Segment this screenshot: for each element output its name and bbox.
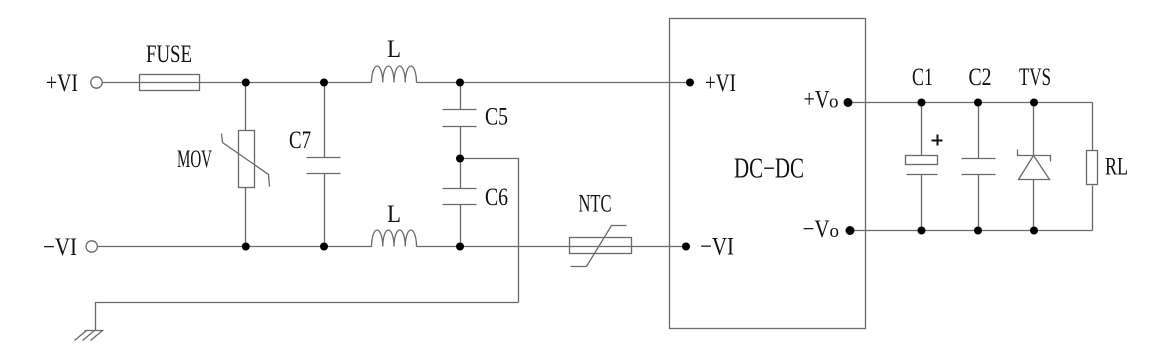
svg-text:−VI: −VI xyxy=(700,234,734,261)
ground xyxy=(85,330,104,332)
svg-text:L: L xyxy=(387,36,401,63)
svg-text:+V: +V xyxy=(804,87,830,114)
diode TVS xyxy=(1033,103,1035,156)
pin -Vo of DC-DC xyxy=(846,226,855,235)
wire NTC to -VI pin xyxy=(570,246,687,248)
junction out TVS top xyxy=(1030,99,1038,107)
wire top after inductor xyxy=(417,82,691,84)
wire +VI input to node A xyxy=(103,82,372,84)
inductor L top xyxy=(372,66,417,83)
plus mark C1 polarity xyxy=(932,135,943,146)
capacitor C2 xyxy=(978,103,980,159)
wire bottom rail left xyxy=(98,246,372,248)
svg-text:RL: RL xyxy=(1105,154,1128,181)
junction node B C5-C6 xyxy=(456,155,464,163)
svg-text:−V: −V xyxy=(803,216,830,243)
svg-text:+VI: +VI xyxy=(705,70,736,97)
varistor MOV xyxy=(239,131,255,188)
wire MOV branch xyxy=(245,83,247,131)
svg-text:TVS: TVS xyxy=(1019,64,1051,91)
svg-text:+VI: +VI xyxy=(46,70,78,97)
svg-text:DC−DC: DC−DC xyxy=(734,154,804,185)
svg-text:FUSE: FUSE xyxy=(146,41,192,68)
svg-text:MOV: MOV xyxy=(177,146,212,173)
junction out C1 bottom xyxy=(918,227,926,235)
resistor RL xyxy=(1092,103,1094,151)
inductor L bottom xyxy=(372,230,417,247)
pin +VI of DC-DC xyxy=(686,79,694,87)
wire node B to ground drop xyxy=(461,159,519,303)
wire MOV to bottom rail xyxy=(245,188,247,247)
svg-text:L: L xyxy=(387,201,401,228)
capacitor C5 xyxy=(460,83,462,110)
svg-text:o: o xyxy=(829,92,839,113)
svg-text:C6: C6 xyxy=(485,184,508,211)
capacitor C6 xyxy=(460,159,462,189)
junction out C2 bottom xyxy=(974,227,982,235)
junction bottom C6 xyxy=(456,243,464,251)
svg-text:C2: C2 xyxy=(969,64,992,91)
svg-text:−VI: −VI xyxy=(43,234,77,261)
wire bottom rail to NTC xyxy=(417,246,570,248)
pin +Vo of DC-DC xyxy=(844,98,853,107)
terminal -VI input xyxy=(86,241,97,252)
junction top C7 xyxy=(320,79,328,87)
junction bottom C7 xyxy=(320,243,328,251)
svg-text:C7: C7 xyxy=(289,127,311,154)
wire +Vo output xyxy=(849,102,1093,104)
svg-text:C5: C5 xyxy=(485,104,508,131)
junction top MOV xyxy=(242,79,250,87)
junction top C5 xyxy=(456,79,464,87)
converter U1 DC-DC box xyxy=(670,19,866,329)
svg-text:C1: C1 xyxy=(912,64,933,91)
thermistor NTC xyxy=(570,238,632,254)
capacitor C7 xyxy=(324,83,326,158)
fuse FUSE xyxy=(140,75,200,91)
svg-text:NTC: NTC xyxy=(579,191,612,218)
wire -Vo output xyxy=(851,230,1093,232)
junction out TVS bottom xyxy=(1030,227,1038,235)
wire ground rail xyxy=(96,303,519,331)
junction out C1 top xyxy=(918,99,926,107)
pin -VI of DC-DC xyxy=(682,243,690,251)
terminal +VI input xyxy=(91,77,102,88)
junction bottom MOV xyxy=(242,243,250,251)
capacitor C1 electrolytic xyxy=(921,103,923,156)
junction out C2 top xyxy=(974,99,982,107)
svg-text:o: o xyxy=(830,221,840,242)
